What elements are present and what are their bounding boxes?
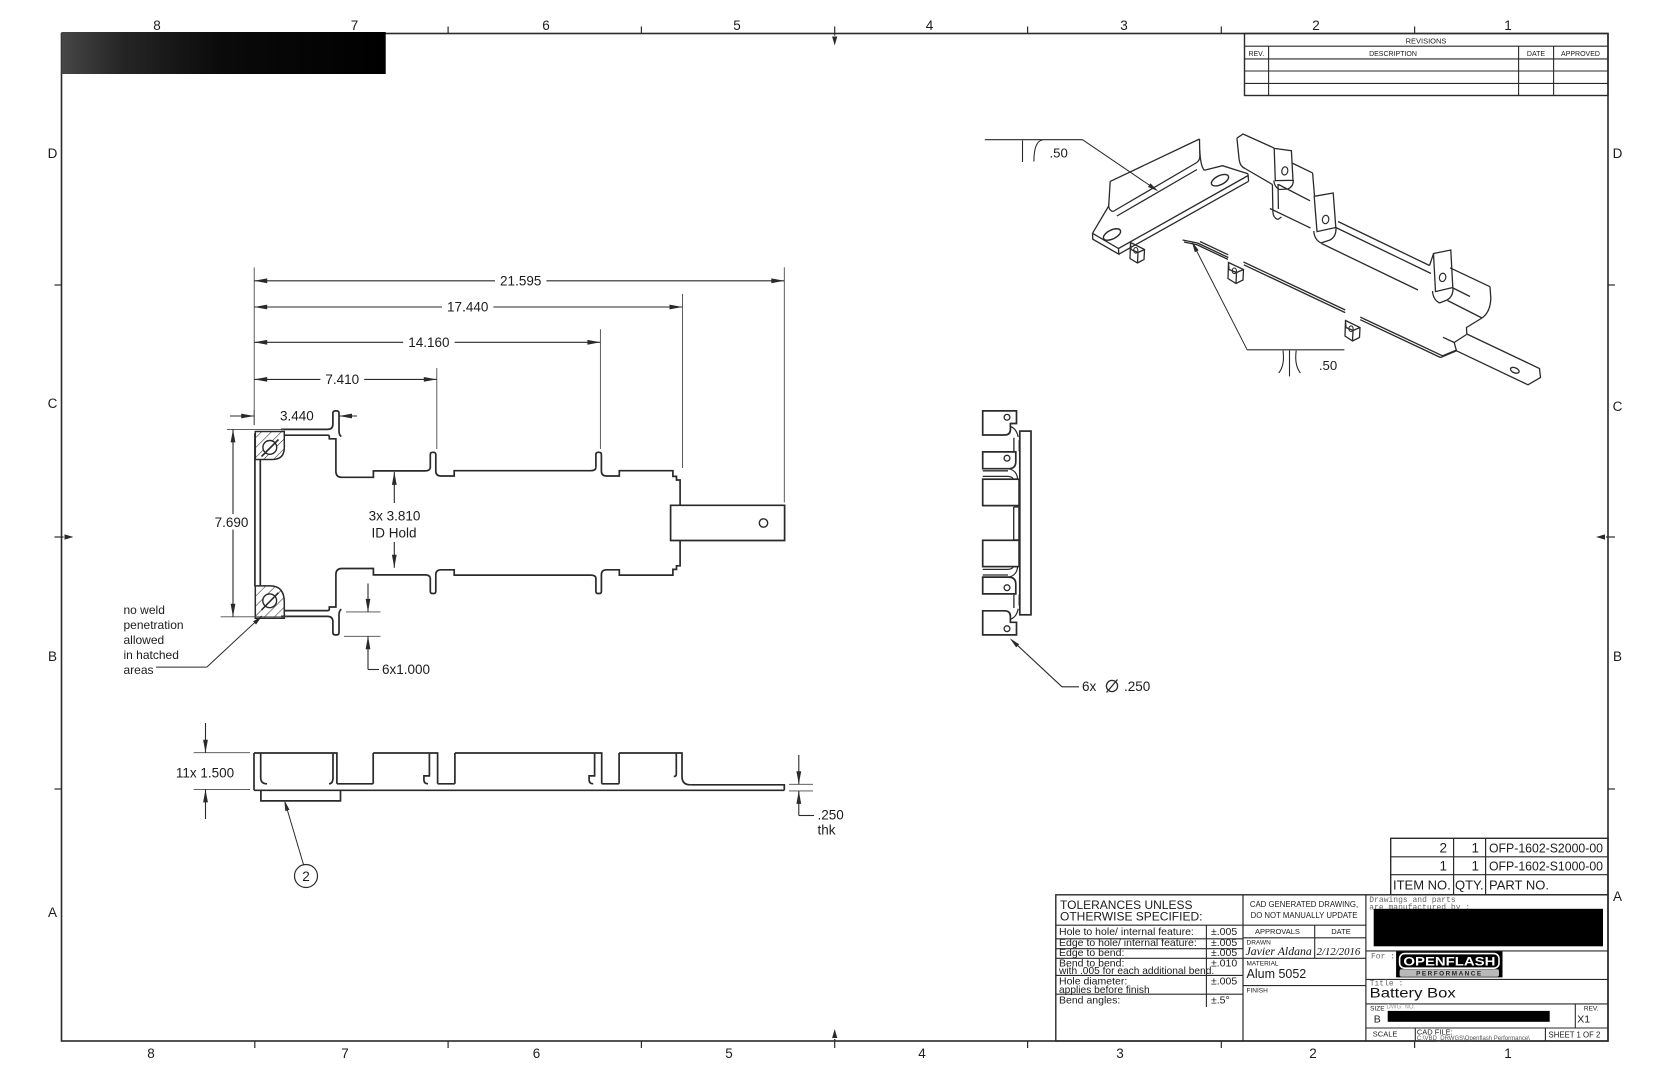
side view: top flange lip block [983, 411, 1017, 435]
iso: top flange plate [1093, 166, 1249, 255]
svg-text:.50: .50 [1050, 146, 1068, 161]
svg-text:6x: 6x [1082, 679, 1097, 694]
svg-text:applies before finish: applies before finish [1059, 985, 1150, 996]
svg-text:4: 4 [918, 1046, 926, 1061]
svg-text:1: 1 [1439, 859, 1447, 874]
svg-text:17.440: 17.440 [447, 300, 488, 315]
svg-text:OFP-1602-S2000-00: OFP-1602-S2000-00 [1489, 841, 1603, 856]
plan view: hook tab 2 (bottom wall) [596, 541, 680, 594]
iso: far hook tab B base [1433, 288, 1454, 303]
plan view: hook tab 1 (top wall) [430, 452, 596, 476]
dimension 3x 3.810 ID Hold [393, 472, 395, 503]
svg-text:1: 1 [1471, 841, 1479, 856]
dimension 21.595 [254, 280, 784, 282]
OpenFlash Performance logo [1396, 951, 1502, 977]
svg-text:thk: thk [818, 823, 836, 838]
iso: far lip tab hole [1281, 166, 1288, 175]
callout 6x dia .250 [1062, 686, 1079, 688]
front view: web top exposed 3 [602, 783, 619, 785]
side view: mid block lower [983, 540, 1019, 566]
center zone marks [834, 27, 836, 36]
side view: hook block lower [983, 574, 1008, 576]
iso: left end wall [1109, 139, 1205, 216]
svg-text:7: 7 [341, 1046, 349, 1061]
callout .50 bend radius (upper) [985, 139, 1083, 141]
dimension 7.690 [227, 428, 284, 430]
svg-text:3: 3 [1116, 1046, 1124, 1061]
iso: wall face to right end [1448, 268, 1491, 318]
iso: far hook tab A hole [1322, 215, 1330, 224]
balloon callout item 2 [285, 804, 303, 865]
svg-text:X1: X1 [1577, 1014, 1590, 1026]
svg-text:For :: For : [1371, 952, 1395, 961]
parts list table [1391, 838, 1608, 895]
plan view: top wall inner contour with joggle steps [284, 435, 430, 477]
svg-text:FINISH: FINISH [1247, 988, 1269, 995]
dimension 7.410 [254, 378, 437, 380]
iso: web sliver edges [1183, 240, 1228, 259]
svg-text:2: 2 [1439, 841, 1447, 856]
dimension 11x 1.500 [194, 752, 250, 754]
dimension 3.440 [230, 415, 254, 417]
svg-text:21.595: 21.595 [500, 273, 541, 288]
svg-text:SHEET 1 OF 2: SHEET 1 OF 2 [1549, 1030, 1601, 1039]
dimension .250 thk [789, 783, 813, 785]
svg-text:A: A [48, 905, 57, 920]
plan view: right end mounting tab [671, 505, 785, 540]
svg-text:DWG. NO.: DWG. NO. [1387, 1005, 1416, 1011]
svg-text:1: 1 [1504, 18, 1512, 33]
svg-text:±.010: ±.010 [1211, 958, 1237, 970]
svg-text:SCALE: SCALE [1373, 1029, 1398, 1038]
svg-text:14.160: 14.160 [408, 335, 449, 350]
svg-text:allowed: allowed [124, 633, 165, 647]
iso: far hook tab A [1314, 193, 1336, 232]
iso: foot tab 1 [1130, 243, 1145, 264]
extension lines for horizontal dimensions [253, 267, 255, 425]
svg-text:DO NOT MANUALLY UPDATE: DO NOT MANUALLY UPDATE [1251, 911, 1358, 920]
svg-text:PERFORMANCE: PERFORMANCE [1416, 971, 1483, 978]
svg-text:2: 2 [1309, 1046, 1317, 1061]
svg-text:1: 1 [1471, 859, 1479, 874]
title block outline [1056, 895, 1608, 1041]
svg-text:REV.: REV. [1248, 51, 1264, 58]
leader from note to hatched corner [156, 666, 207, 668]
svg-text:Bend angles:: Bend angles: [1059, 995, 1120, 1007]
svg-text:no weld: no weld [124, 603, 165, 617]
side view: mid block upper [983, 479, 1019, 505]
svg-text:7.690: 7.690 [215, 515, 249, 530]
svg-text:penetration: penetration [124, 618, 184, 632]
svg-text:±.005: ±.005 [1211, 975, 1237, 987]
svg-text:DESCRIPTION: DESCRIPTION [1369, 51, 1417, 58]
svg-text:.250: .250 [818, 808, 844, 823]
svg-text:DATE: DATE [1527, 51, 1545, 58]
dimension 14.160 [254, 341, 600, 343]
svg-text:APPROVALS: APPROVALS [1255, 927, 1300, 936]
side view: web bar [1020, 431, 1031, 615]
zone boundary ticks [447, 27, 449, 34]
svg-text:D: D [1613, 146, 1623, 161]
plan view: hook tab 1 (bottom wall) [430, 570, 596, 594]
svg-text:1: 1 [1504, 1046, 1512, 1061]
svg-text:B: B [1613, 649, 1622, 664]
svg-text:ID Hold: ID Hold [371, 526, 416, 541]
svg-text:D: D [48, 146, 58, 161]
svg-text:DATE: DATE [1331, 927, 1350, 936]
side view: right tab edge-on [1014, 507, 1019, 540]
iso: far hook tab A base [1314, 228, 1336, 243]
svg-text:areas: areas [124, 663, 154, 677]
iso: far lip tab base curls [1274, 180, 1294, 189]
plan view: bottom wall inner contour with joggle steps [284, 569, 430, 611]
dimension 17.440 [254, 306, 682, 308]
svg-text:OTHERWISE SPECIFIED:: OTHERWISE SPECIFIED: [1060, 910, 1202, 924]
svg-text:6x1.000: 6x1.000 [382, 662, 430, 677]
svg-text:6: 6 [533, 1046, 541, 1061]
svg-text:Battery Box: Battery Box [1370, 986, 1456, 1001]
svg-text:QTY.: QTY. [1455, 877, 1484, 892]
svg-text:in hatched: in hatched [124, 648, 179, 662]
plan view: hatched weld zone bottom-left [255, 586, 284, 618]
svg-text:Javier Aldana: Javier Aldana [1246, 944, 1312, 958]
svg-text:CAD GENERATED DRAWING,: CAD GENERATED DRAWING, [1250, 900, 1358, 909]
svg-text:OFP-1602-S1000-00: OFP-1602-S1000-00 [1489, 859, 1603, 874]
svg-text:REV.: REV. [1584, 1005, 1599, 1012]
front view: doubler plate item 2 [261, 790, 341, 801]
svg-text:C: C [48, 396, 58, 411]
front view: web bottom line [254, 789, 784, 791]
svg-text:2: 2 [302, 869, 310, 884]
svg-text:A: A [1613, 889, 1622, 904]
revisions table [1245, 34, 1609, 96]
svg-text:ITEM NO.: ITEM NO. [1393, 877, 1451, 892]
iso: far hook tab B hole [1439, 273, 1447, 282]
svg-text:PART NO.: PART NO. [1489, 877, 1549, 892]
svg-text:SIZE: SIZE [1370, 1005, 1385, 1012]
front view: left wall [254, 753, 267, 790]
svg-text:C: C [1613, 399, 1623, 414]
svg-text:±.5°: ±.5° [1211, 995, 1230, 1007]
svg-text:7.410: 7.410 [325, 372, 359, 387]
iso: web near edge [1198, 242, 1443, 358]
plan view: left end wall [254, 433, 256, 586]
svg-text:.50: .50 [1319, 358, 1337, 373]
dimension 6x1.000 [346, 611, 381, 613]
svg-text:8: 8 [147, 1046, 155, 1061]
svg-text:5: 5 [733, 18, 741, 33]
svg-text:B: B [48, 649, 57, 664]
front view: wall segment B with hook1 [373, 753, 437, 784]
svg-text:4: 4 [926, 18, 934, 33]
front view: web top exposed 1 [337, 783, 373, 785]
iso: far hook tab B [1434, 250, 1453, 292]
iso: right tab hole [1510, 366, 1520, 374]
svg-text:8: 8 [153, 18, 161, 33]
svg-text:6: 6 [542, 18, 550, 33]
svg-text:3.440: 3.440 [280, 409, 314, 424]
front view: wall segment A with lip [254, 753, 337, 784]
svg-text:with .005 for each additional: with .005 for each additional bend. [1058, 966, 1214, 977]
svg-text:3x 3.810: 3x 3.810 [369, 509, 421, 524]
svg-text:2/12/2016: 2/12/2016 [1317, 946, 1361, 958]
svg-text:.250: .250 [1124, 679, 1150, 694]
callout .50 bend radius (lower) [1247, 349, 1344, 351]
iso: near lip strip [1272, 184, 1281, 220]
side view: hook block upper [983, 452, 1016, 469]
svg-text:CAD FILE:: CAD FILE: [1417, 1027, 1453, 1036]
side view: lip edge strip [1013, 438, 1015, 451]
svg-text:B: B [1374, 1014, 1381, 1026]
plan view: hook tab 2 (top wall) [596, 452, 680, 505]
svg-text:3: 3 [1120, 18, 1128, 33]
iso: foot tab 3 hole [1349, 326, 1353, 332]
iso: foot tab 1 hole [1134, 248, 1138, 254]
svg-text:OPENFLASH: OPENFLASH [1403, 954, 1495, 968]
svg-text:11x 1.500: 11x 1.500 [176, 765, 234, 780]
plan view: bottom flange with downturned lip [281, 609, 341, 635]
iso: right mounting tab [1441, 334, 1541, 385]
svg-text:C:\VBD_DRWGS\Openflash Perform: C:\VBD_DRWGS\Openflash Performance\ [1417, 1036, 1530, 1042]
svg-text:2: 2 [1312, 18, 1320, 33]
iso: wall face between hooks [1322, 222, 1434, 291]
front view: web top exposed 2 [438, 783, 455, 785]
svg-text:5: 5 [725, 1046, 733, 1061]
iso: far lip tab [1274, 148, 1293, 180]
front view: right tab strip [690, 785, 784, 791]
iso: foot tab 3 [1345, 321, 1360, 342]
iso: foot tab 2 hole [1232, 268, 1236, 274]
iso: wall face between lip and hook A [1270, 163, 1315, 228]
iso: foot tab 2 [1228, 263, 1244, 284]
iso: channel right end notch [1467, 318, 1483, 334]
iso: flange plate hole left [1102, 226, 1123, 242]
side view: bottom flange lip block [1013, 595, 1015, 608]
svg-text:Alum 5052: Alum 5052 [1247, 967, 1307, 981]
iso: wall segment behind plate [1237, 134, 1274, 185]
front view: wall segment C with hook2 [455, 753, 602, 784]
svg-text:7: 7 [351, 18, 359, 33]
svg-text:REVISIONS: REVISIONS [1406, 37, 1447, 46]
svg-text:APPROVED: APPROVED [1561, 51, 1600, 58]
plan view: top flange with upturned lip [281, 411, 341, 437]
iso: flange plate hole right [1210, 172, 1231, 188]
front view: wall segment D with end fillet [619, 753, 690, 785]
